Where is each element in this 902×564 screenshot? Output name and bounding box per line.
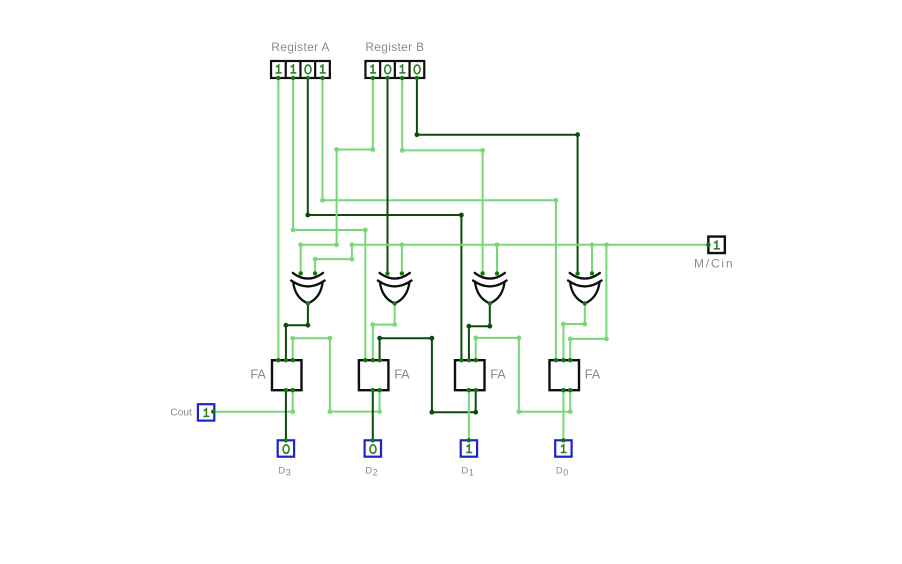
svg-text:Register B: Register B — [365, 40, 424, 54]
svg-text:3: 3 — [286, 468, 291, 478]
svg-text:M/Cin: M/Cin — [694, 257, 734, 271]
svg-text:1: 1 — [469, 468, 474, 478]
svg-text:D: D — [461, 466, 468, 477]
svg-text:0: 0 — [563, 468, 568, 478]
svg-text:FA: FA — [585, 367, 601, 381]
svg-text:FA: FA — [490, 367, 506, 381]
svg-text:2: 2 — [373, 468, 378, 478]
svg-text:D: D — [278, 466, 285, 477]
svg-text:D: D — [556, 466, 563, 477]
svg-text:Register A: Register A — [271, 40, 329, 54]
svg-text:D: D — [365, 466, 372, 477]
svg-text:FA: FA — [250, 367, 266, 381]
svg-text:FA: FA — [394, 367, 410, 381]
svg-text:Cout: Cout — [170, 408, 192, 419]
